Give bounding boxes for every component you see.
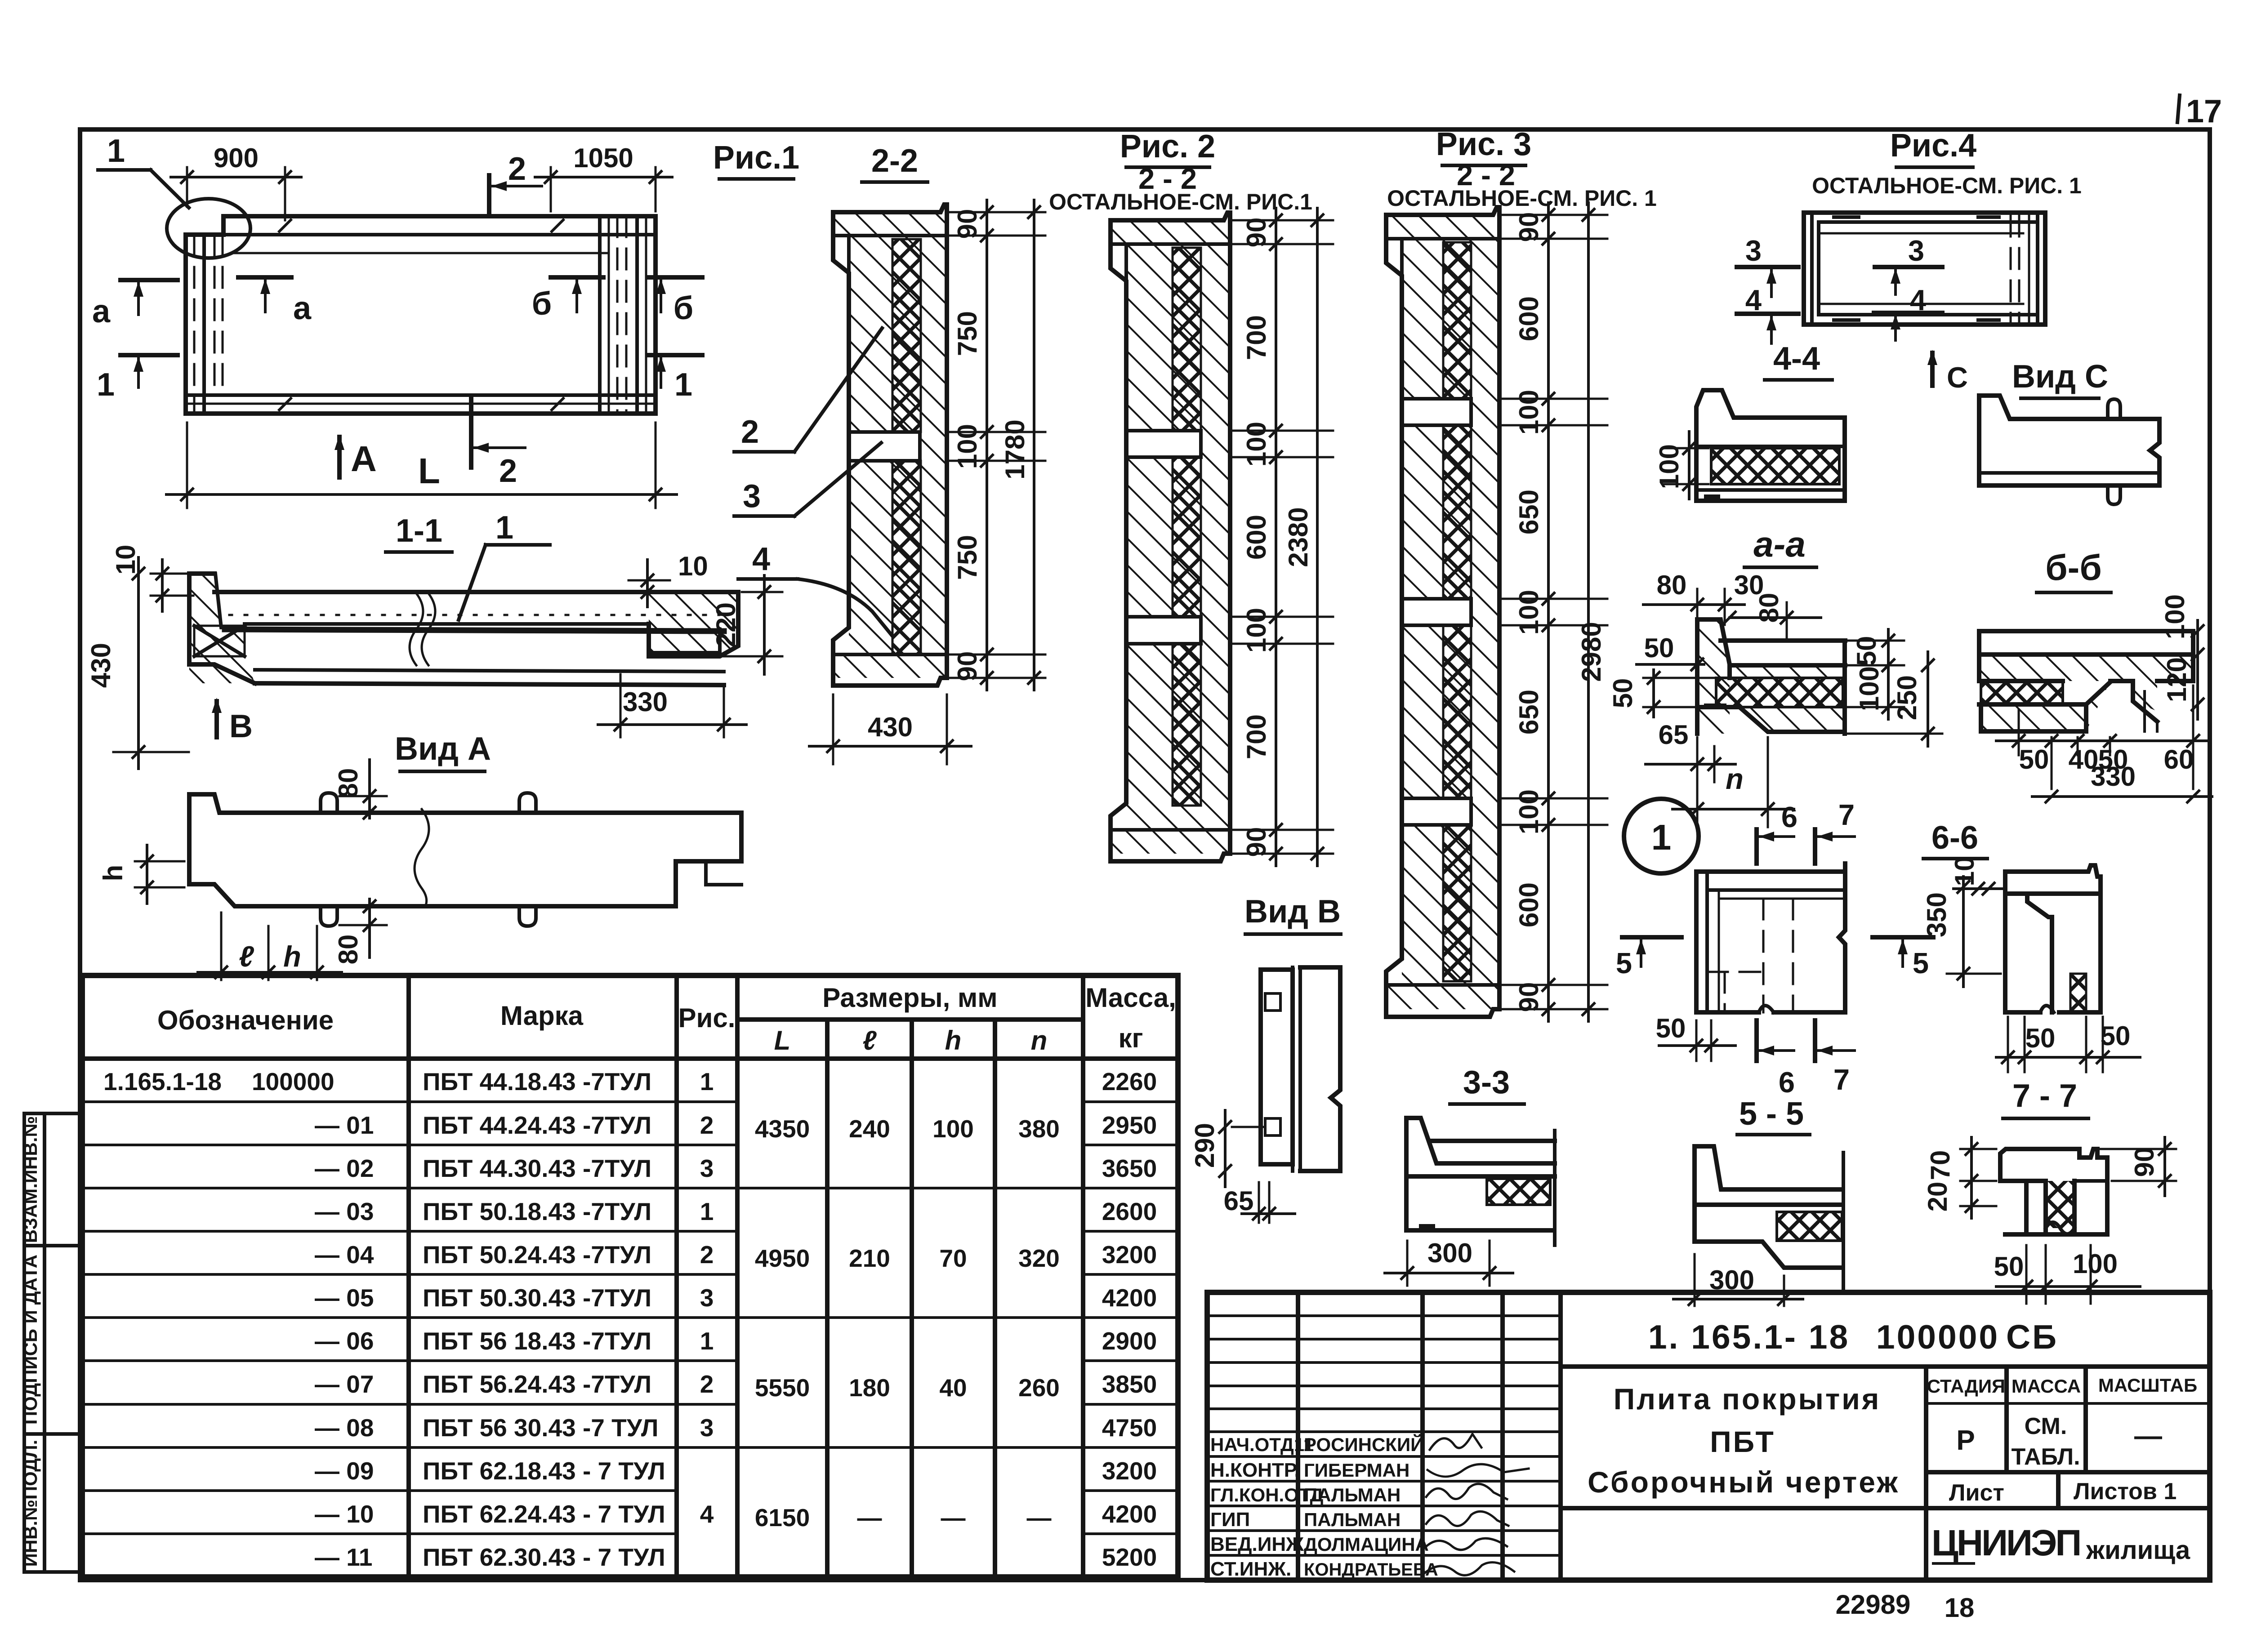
svg-text:— 01: — 01 (315, 1111, 374, 1139)
svg-text:ОСТАЛЬНОЕ-СМ. РИС. 1: ОСТАЛЬНОЕ-СМ. РИС. 1 (1387, 186, 1657, 211)
svg-text:6: 6 (1781, 801, 1798, 833)
Вид C outline (1979, 396, 2159, 485)
Рис.3 top cap hatched (1386, 215, 1499, 239)
section marker б outside right (647, 275, 702, 280)
svg-text:1: 1 (107, 133, 125, 169)
Рис.3 extension lines (1501, 214, 1607, 216)
6-6 outline (2005, 865, 2101, 1012)
Вид C lower plate line (1979, 471, 2159, 475)
Рис.2 insulation crosshatch 1 (1173, 248, 1201, 431)
svg-text:ПОДПИСЬ И ДАТА: ПОДПИСЬ И ДАТА (20, 1255, 41, 1425)
svg-text:Рис. 3: Рис. 3 (1436, 126, 1531, 162)
svg-text:a: a (92, 294, 111, 330)
5-5 insulation crosshatch (1777, 1212, 1842, 1241)
detail circle 1 (1624, 799, 1699, 873)
2-2 inner plate line (847, 236, 851, 432)
svg-text:h: h (283, 940, 301, 973)
1-1 left end block hatched (189, 574, 255, 683)
plan top flange inner edge (231, 252, 609, 254)
7-7 break at crosshatch bottom (2046, 1222, 2074, 1234)
Рис.3 outline (1386, 207, 1499, 1017)
svg-text:5550: 5550 (755, 1374, 810, 1402)
svg-text:4200: 4200 (1102, 1500, 1157, 1528)
svg-text:—: — (857, 1504, 882, 1532)
section marker 1 outside left (120, 353, 178, 357)
svg-text:СМ.: СМ. (2025, 1413, 2067, 1439)
stamp СТАДИЯ МАССА МАСШТАБ header (2004, 1367, 2009, 1472)
Рис.2 outline (1111, 213, 1230, 861)
svg-text:210: 210 (849, 1244, 890, 1272)
section marker 2 top (487, 175, 491, 215)
svg-text:ПБТ 50.30.43 -7ТУЛ: ПБТ 50.30.43 -7ТУЛ (423, 1284, 651, 1312)
marker 3 outside left (1737, 265, 1798, 269)
svg-text:1: 1 (97, 367, 115, 403)
stamp name cell (1924, 1367, 1928, 1580)
svg-text:250: 250 (1892, 675, 1922, 720)
2-2 outline (833, 205, 947, 686)
7-7 insulation crosshatch (2046, 1181, 2074, 1228)
svg-text:50: 50 (1656, 1013, 1686, 1043)
svg-text:600: 600 (1514, 296, 1544, 341)
marker 4 inside (1874, 311, 1942, 315)
svg-text:— 02: — 02 (315, 1154, 374, 1182)
svg-text:50: 50 (1644, 633, 1674, 663)
5-5 right break edge (1842, 1153, 1845, 1293)
svg-text:22989: 22989 (1836, 1590, 1911, 1620)
svg-text:330: 330 (623, 687, 668, 717)
svg-text:2600: 2600 (1102, 1198, 1157, 1225)
3-3 insulation crosshatch (1487, 1179, 1550, 1205)
4-4 outline (1696, 390, 1845, 501)
table group lines full width (82, 1187, 1178, 1189)
svg-text:90: 90 (952, 651, 982, 681)
svg-text:1: 1 (1651, 817, 1672, 857)
2-2 insulation crosshatch lower (892, 461, 921, 655)
svg-text:2900: 2900 (1102, 1327, 1157, 1355)
marker 5 left (1622, 935, 1682, 940)
svg-text:1: 1 (700, 1327, 714, 1355)
stamp document number cell (1561, 1364, 2210, 1369)
plan slash tick top-left rib (278, 219, 292, 232)
plan dashed rib lines left (193, 235, 196, 414)
svg-text:НАЧ.ОТД11: НАЧ.ОТД11 (1210, 1434, 1314, 1455)
svg-text:3850: 3850 (1102, 1370, 1157, 1398)
svg-text:— 04: — 04 (315, 1241, 374, 1269)
svg-text:2: 2 (700, 1370, 714, 1398)
4-4 insulation crosshatch (1711, 448, 1839, 484)
corner plan inner lines (1705, 872, 1709, 1012)
signature table verticals (1296, 1292, 1300, 1580)
svg-text:Масса,: Масса, (1085, 983, 1176, 1013)
plan bottom band mid line (186, 403, 656, 405)
marker 5 right (1873, 935, 1933, 940)
svg-text:ДОЛМАЦИНА: ДОЛМАЦИНА (1304, 1534, 1429, 1555)
svg-text:n: n (1031, 1025, 1048, 1055)
svg-text:7: 7 (1838, 798, 1855, 831)
svg-text:50: 50 (2025, 1023, 2056, 1053)
svg-text:ОСТАЛЬНОЕ-СМ. РИС.1: ОСТАЛЬНОЕ-СМ. РИС.1 (1049, 189, 1312, 214)
7-7 outline (2000, 1149, 2107, 1234)
Рис.2 web hatched (1126, 244, 1230, 830)
1-1 break mark (410, 593, 435, 665)
svg-text:Рис.4: Рис.4 (1890, 128, 1976, 164)
svg-text:Рис.1: Рис.1 (713, 140, 799, 176)
svg-text:40: 40 (939, 1374, 967, 1402)
svg-text:60: 60 (2164, 744, 2194, 775)
svg-text:жилища: жилища (2086, 1536, 2190, 1565)
svg-text:МАСШТАБ: МАСШТАБ (2098, 1375, 2197, 1396)
svg-text:4: 4 (1745, 284, 1762, 316)
svg-text:ПБТ 44.18.43 -7ТУЛ: ПБТ 44.18.43 -7ТУЛ (423, 1068, 651, 1095)
svg-text:Размеры, мм: Размеры, мм (822, 983, 997, 1013)
svg-text:2950: 2950 (1102, 1111, 1157, 1139)
svg-text:СБ: СБ (2006, 1318, 2058, 1356)
svg-text:700: 700 (1241, 714, 1271, 759)
marker 3 inside (1875, 265, 1942, 269)
Рис.3 insulation crosshatch 3 (1443, 625, 1471, 798)
svg-text:90: 90 (1241, 218, 1271, 248)
б-б insulation crosshatch (1981, 681, 2063, 704)
Рис.3 dimension chain 90/600/100/650/100/650/100/600/90 (1547, 203, 1550, 1021)
svg-text:1: 1 (674, 367, 692, 403)
1-1 right end block hatched (649, 593, 738, 656)
svg-text:ПБТ: ПБТ (1710, 1425, 1775, 1458)
2-2 bottom cap hatched (833, 655, 947, 678)
svg-text:ПБТ 56 30.43 -7 ТУЛ: ПБТ 56 30.43 -7 ТУЛ (423, 1414, 658, 1442)
svg-text:Вид C: Вид C (2012, 359, 2108, 395)
table header mid line for Размеры (737, 1017, 1083, 1022)
svg-text:6150: 6150 (755, 1504, 810, 1532)
svg-text:100000: 100000 (252, 1068, 335, 1095)
7-7 top plate bottom line (2074, 1179, 2107, 1183)
svg-text:—: — (2134, 1420, 2162, 1452)
svg-text:50: 50 (1994, 1251, 2024, 1282)
svg-text:2260: 2260 (1102, 1068, 1157, 1095)
svg-text:290: 290 (1190, 1123, 1220, 1168)
Рис.3 plate inner lines (1400, 239, 1404, 399)
svg-text:100: 100 (1241, 422, 1271, 467)
Рис.3 overall dimension 2980 (1587, 203, 1590, 1021)
section marker 1 outside right (647, 353, 702, 357)
svg-text:3650: 3650 (1102, 1154, 1157, 1182)
svg-text:90: 90 (1241, 827, 1271, 857)
Рис.4 small weld marks (1834, 215, 1859, 219)
svg-text:2: 2 (700, 1241, 714, 1269)
svg-text:ИНВ.№ПОДЛ.: ИНВ.№ПОДЛ. (20, 1440, 41, 1567)
Рис.3 notch outlines (1402, 399, 1471, 425)
svg-text:1050: 1050 (573, 143, 633, 173)
view arrow C (1930, 353, 1935, 386)
svg-text:a: a (293, 290, 312, 326)
svg-text:600: 600 (1241, 515, 1271, 560)
svg-text:900: 900 (214, 143, 259, 173)
svg-text:3200: 3200 (1102, 1457, 1157, 1485)
svg-text:2: 2 (499, 453, 517, 489)
svg-text:1780: 1780 (1000, 419, 1030, 479)
2-2 dimension chain 90/750/100/750/90 (986, 200, 988, 690)
a-a insulation crosshatch (1716, 678, 1843, 707)
svg-text:L: L (418, 451, 440, 491)
svg-text:— 07: — 07 (315, 1370, 374, 1398)
svg-text:ПБТ 50.18.43 -7ТУЛ: ПБТ 50.18.43 -7ТУЛ (423, 1198, 651, 1225)
svg-text:5200: 5200 (1102, 1543, 1157, 1571)
6-6 top plate lines (2005, 891, 2101, 896)
2-2 mid notch outline (849, 432, 920, 461)
svg-text:— 06: — 06 (315, 1327, 374, 1355)
svg-text:1-1: 1-1 (396, 513, 442, 549)
svg-text:— 05: — 05 (315, 1284, 374, 1312)
Вид A outline (189, 794, 741, 906)
svg-text:330: 330 (2091, 761, 2136, 792)
plan left band inner line (202, 235, 206, 414)
6-6 break (2040, 1006, 2054, 1012)
left margin box ВЗАМ.ИНВ.№ (24, 1113, 80, 1246)
svg-text:б: б (532, 286, 552, 322)
svg-text:90: 90 (2129, 1147, 2159, 1177)
svg-text:2380: 2380 (1283, 507, 1313, 567)
svg-text:a-a: a-a (1753, 524, 1806, 564)
1-1 left end cross brace (194, 626, 245, 656)
svg-text:L: L (774, 1025, 791, 1055)
svg-text:10: 10 (678, 551, 708, 581)
dimension L line (186, 423, 188, 508)
svg-text:2-2: 2-2 (871, 143, 918, 179)
plan outer outline (186, 216, 656, 414)
svg-text:100000: 100000 (1876, 1318, 1999, 1356)
svg-text:3: 3 (700, 1154, 714, 1182)
Рис.3 insulation crosshatch 4 (1443, 825, 1471, 981)
svg-text:ℓ: ℓ (863, 1025, 877, 1055)
2-2 extension lines right (949, 211, 1045, 214)
svg-text:—: — (1027, 1504, 1052, 1532)
svg-text:20: 20 (1922, 1182, 1953, 1212)
svg-text:600: 600 (1514, 882, 1544, 927)
table column lines (406, 975, 411, 1577)
svg-text:65: 65 (1659, 720, 1689, 750)
svg-text:ВЕД.ИНЖ.: ВЕД.ИНЖ. (1210, 1533, 1309, 1555)
б-б top plate outline (1979, 631, 2193, 655)
svg-text:3: 3 (1908, 234, 1924, 267)
stamp Лист / Листов 1 row (2056, 1472, 2061, 1508)
2-2 overall dimension 1780 (1033, 200, 1035, 690)
Рис.4 dashed lines right end (2010, 216, 2012, 322)
Рис.2 overall dimension 2380 (1316, 208, 1319, 866)
Рис.2 insulation crosshatch 3 (1173, 644, 1201, 806)
svg-text:100: 100 (1514, 590, 1544, 635)
svg-text:— 03: — 03 (315, 1198, 374, 1225)
svg-text:Сборочный чертеж: Сборочный чертеж (1588, 1465, 1900, 1499)
table header bottom line (82, 1056, 1178, 1061)
svg-text:300: 300 (1427, 1238, 1472, 1268)
svg-text:4-4: 4-4 (1773, 341, 1820, 377)
svg-text:ГИБЕРМАН: ГИБЕРМАН (1304, 1460, 1409, 1481)
svg-text:Рис.: Рис. (678, 1003, 736, 1033)
svg-text:МАССА: МАССА (2012, 1376, 2081, 1397)
svg-text:3200: 3200 (1102, 1241, 1157, 1269)
plan slash tick top-right rib (551, 219, 564, 232)
svg-text:430: 430 (868, 712, 913, 742)
svg-text:6: 6 (1779, 1066, 1795, 1099)
svg-text:90: 90 (1514, 982, 1544, 1012)
Рис.2 notch outlines (1126, 431, 1201, 457)
svg-text:1: 1 (700, 1068, 714, 1095)
svg-text:6-6: 6-6 (1931, 820, 1978, 856)
corner plan outline (1696, 864, 1845, 1012)
Рис.3 bottom cap hatched (1386, 985, 1499, 1009)
view arrow A (337, 437, 342, 477)
view arrow B (214, 701, 219, 737)
3-3 outline (1406, 1118, 1555, 1230)
б-б slab hatched (1979, 655, 2193, 711)
1-1 rebar dotted line (229, 614, 719, 616)
a-a slab outline (1730, 641, 1845, 665)
Вид A bottom hook 1 (321, 906, 337, 926)
plan slash tick bottom-right rib (551, 397, 564, 411)
plan bottom band inner line (186, 393, 656, 397)
plan dashed rib lines right (616, 216, 619, 414)
4-4 slab bottom line (1696, 445, 1845, 448)
Рис.4 outer rect (1804, 213, 2045, 325)
svg-text:80: 80 (333, 768, 363, 798)
svg-text:ℓ: ℓ (239, 940, 254, 973)
Рис.3 web hatched (1402, 239, 1499, 985)
svg-text:РОСИНСКИЙ: РОСИНСКИЙ (1304, 1434, 1424, 1455)
svg-text:СТ.ИНЖ.: СТ.ИНЖ. (1210, 1558, 1291, 1580)
section marker б inside (551, 275, 603, 280)
Рис.3 insulation crosshatch 1 (1443, 242, 1471, 399)
svg-text:— 10: — 10 (315, 1500, 374, 1528)
svg-text:100: 100 (1241, 608, 1271, 653)
svg-text:4750: 4750 (1102, 1414, 1157, 1442)
svg-text:180: 180 (849, 1374, 890, 1402)
svg-text:кг: кг (1118, 1023, 1143, 1053)
Вид A break mark (415, 809, 429, 906)
a-a black mark (1704, 704, 1726, 709)
svg-text:320: 320 (1018, 1244, 1060, 1272)
svg-text:100: 100 (2160, 594, 2190, 639)
stamp values Р / СМ.ТАБЛ. / — (1926, 1470, 2210, 1474)
5-5 outline (1695, 1146, 1842, 1268)
svg-text:65: 65 (1224, 1186, 1254, 1216)
svg-text:Лист: Лист (1949, 1480, 2004, 1506)
svg-text:5 - 5: 5 - 5 (1739, 1096, 1804, 1132)
1-1 bottom ledge lines (255, 670, 724, 672)
svg-text:ГИП: ГИП (1210, 1509, 1250, 1531)
svg-text:3: 3 (1745, 234, 1762, 267)
svg-text:ЦНИИЭП: ЦНИИЭП (1931, 1523, 2080, 1563)
svg-text:Рис. 2: Рис. 2 (1120, 129, 1215, 165)
Рис.3 insulation crosshatch 2 (1443, 425, 1471, 599)
svg-text:ТАБЛ.: ТАБЛ. (2011, 1444, 2080, 1470)
left margin box ПОДПИСЬ И ДАТА (24, 1246, 80, 1434)
3-3 right break edge (1553, 1131, 1557, 1245)
left margin box ИНВ.№ПОДЛ. (24, 1434, 80, 1572)
svg-text:4: 4 (1910, 284, 1926, 316)
4-4 black mark (1704, 494, 1720, 501)
б-б right leg lines (2145, 691, 2157, 731)
table row lines left columns (82, 1100, 737, 1103)
svg-text:2: 2 (700, 1111, 714, 1139)
svg-text:18: 18 (1945, 1593, 1975, 1623)
Рис.2 bottom cap hatched (1111, 830, 1230, 854)
svg-text:90: 90 (1514, 212, 1544, 242)
2-2 top cap hatched (833, 212, 947, 236)
section marker a outside left (120, 278, 178, 282)
plan top band inner line (205, 233, 656, 236)
svg-text:750: 750 (952, 535, 982, 580)
a-a slab hatched (1730, 665, 1845, 678)
svg-text:h: h (945, 1025, 962, 1055)
Вид C bottom hook (2108, 485, 2120, 504)
svg-text:1.165.1-18: 1.165.1-18 (103, 1068, 222, 1095)
svg-text:ПБТ 56.24.43 -7ТУЛ: ПБТ 56.24.43 -7ТУЛ (423, 1370, 651, 1398)
svg-text:100: 100 (932, 1115, 974, 1143)
svg-text:3: 3 (743, 478, 761, 514)
svg-text:Р: Р (1956, 1425, 1975, 1456)
Вид B body (1261, 970, 1293, 1164)
7-7 bottom line (2005, 1232, 2107, 1237)
Вид B embedded plate 1 (1265, 993, 1280, 1011)
svg-text:2: 2 (508, 151, 526, 187)
svg-text:2: 2 (741, 414, 759, 450)
Рис.2 insulation crosshatch 2 (1173, 457, 1201, 617)
svg-text:5: 5 (1913, 947, 1929, 980)
Рис.2 extension lines (1232, 219, 1333, 222)
2-2 insulation crosshatch upper (892, 239, 921, 432)
svg-text:C: C (1947, 361, 1968, 394)
svg-text:n: n (1726, 762, 1744, 795)
svg-text:Вид А: Вид А (395, 731, 491, 767)
a-a wall and nib hatched (1697, 619, 1730, 734)
svg-text:2980: 2980 (1576, 622, 1606, 681)
svg-text:100: 100 (1854, 666, 1884, 711)
dimension 1050 (550, 167, 552, 211)
svg-text:Н.КОНТР.: Н.КОНТР. (1210, 1459, 1300, 1481)
Рис.2 plate inner line (1124, 244, 1128, 431)
1-1 slab underside lines (245, 622, 649, 626)
corner plan dashed lines (1762, 899, 1765, 1012)
svg-text:ПАЛЬМАН: ПАЛЬМАН (1304, 1484, 1401, 1505)
4-4 bottom line (1696, 488, 1845, 492)
detail callout circle at plan corner (167, 199, 250, 258)
svg-text:ПАЛЬМАН: ПАЛЬМАН (1304, 1509, 1401, 1530)
signature scribble 2 (1427, 1464, 1529, 1477)
svg-text:120: 120 (2162, 657, 2192, 702)
svg-text:— 09: — 09 (315, 1457, 374, 1485)
table outer border (82, 975, 1178, 1577)
marker 4 outside left (1737, 312, 1798, 316)
svg-text:100: 100 (2073, 1249, 2118, 1279)
svg-text:380: 380 (1018, 1115, 1060, 1143)
signature scribble 1 (1430, 1434, 1481, 1450)
svg-text:1: 1 (495, 510, 513, 546)
svg-text:б: б (674, 290, 693, 326)
svg-text:650: 650 (1514, 490, 1544, 534)
plan slash tick bottom-left rib (278, 397, 292, 411)
svg-text:1. 165.1- 18: 1. 165.1- 18 (1648, 1318, 1850, 1356)
svg-text:100: 100 (1654, 444, 1684, 489)
svg-text:h: h (98, 865, 128, 882)
svg-text:ПБТ 56 18.43 -7ТУЛ: ПБТ 56 18.43 -7ТУЛ (423, 1327, 651, 1355)
svg-text:— 08: — 08 (315, 1414, 374, 1442)
Вид A right end notch (706, 861, 741, 885)
svg-text:4: 4 (700, 1500, 714, 1528)
svg-text:ПБТ 44.24.43 -7ТУЛ: ПБТ 44.24.43 -7ТУЛ (423, 1111, 651, 1139)
svg-text:220: 220 (711, 602, 741, 647)
svg-text:50: 50 (2019, 744, 2049, 775)
svg-text:ПБТ 50.24.43 -7ТУЛ: ПБТ 50.24.43 -7ТУЛ (423, 1241, 651, 1269)
svg-text:700: 700 (1241, 315, 1271, 360)
